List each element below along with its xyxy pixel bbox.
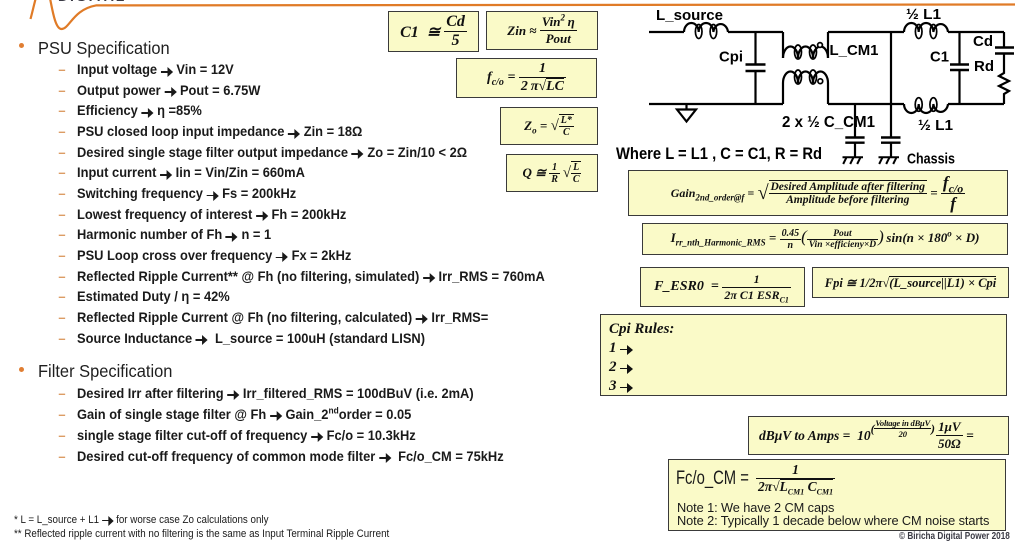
Fc/o_CM box — [668, 459, 1006, 531]
inductor half L1 top — [904, 23, 948, 39]
svg-text:C1: C1 — [930, 49, 949, 66]
node line between rails — [890, 32, 892, 137]
svg-text:2 x ½ C_CM1: 2 x ½ C_CM1 — [782, 114, 875, 131]
copyright — [899, 531, 1010, 542]
capacitor C_CM1 b — [881, 138, 901, 158]
formula box C1 = Cd/5 — [388, 11, 479, 52]
formula box fc/o — [456, 58, 597, 98]
svg-text:Cpi: Cpi — [719, 49, 743, 66]
wire bottom rail middle — [828, 103, 904, 105]
capacitor C1 — [950, 32, 969, 104]
formula box Zin — [486, 11, 598, 50]
capacitor Cpi — [746, 32, 766, 104]
inductor half L1 bottom — [904, 98, 948, 113]
chassis ground a — [843, 157, 864, 164]
wire top rail middle — [828, 31, 904, 33]
capacitor C_CM1 a — [845, 104, 864, 157]
ground — [677, 104, 696, 122]
Cpi rules box — [600, 314, 1007, 396]
formula box Q — [506, 154, 598, 192]
common-mode choke L_CM1 bottom winding — [783, 70, 828, 104]
formula box Gain 2nd order — [628, 170, 1008, 216]
wire bottom rail right — [948, 103, 1004, 105]
footnotes — [14, 514, 268, 526]
capacitor Cd — [995, 32, 1014, 71]
logo swoosh + orange rule across top — [0, 0, 1015, 42]
inductor L_source — [684, 23, 728, 32]
wire bottom rail left — [649, 103, 783, 105]
formula box Fpi — [812, 267, 1009, 298]
svg-text:L_source: L_source — [656, 7, 723, 24]
wire top rail right — [948, 31, 1004, 33]
formula box Zo — [500, 107, 598, 145]
svg-text:Cd: Cd — [973, 33, 993, 50]
formula box F_ESR0 — [640, 267, 805, 307]
svg-text:L_CM1: L_CM1 — [830, 42, 879, 59]
wire top rail left — [649, 31, 783, 33]
resistor Rd — [999, 71, 1009, 104]
formula box Irr nth harmonic — [642, 223, 1008, 255]
PSU list — [77, 62, 234, 78]
svg-text:Chassis: Chassis — [907, 152, 955, 168]
svg-text:½ L1: ½ L1 — [906, 6, 941, 23]
svg-text:Rd: Rd — [974, 58, 994, 75]
logo text (cut off at top) — [58, 0, 126, 4]
svg-text:Where L = L1 , C = C1, R = Rd: Where L = L1 , C = C1, R = Rd — [616, 145, 822, 163]
Filter Specification heading — [19, 367, 24, 372]
PSU Specification heading — [19, 43, 24, 48]
chassis ground b — [879, 157, 900, 164]
common-mode choke L_CM1 top winding — [783, 32, 828, 59]
svg-text:½ L1: ½ L1 — [918, 117, 953, 134]
dBuV to Amps box — [748, 416, 1009, 455]
